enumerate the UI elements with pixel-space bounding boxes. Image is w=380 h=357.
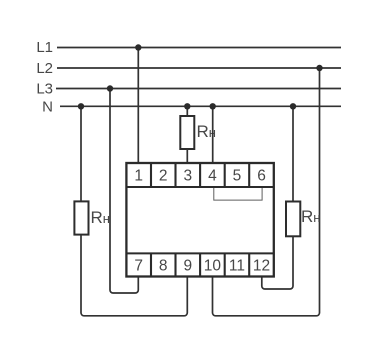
svg-text:7: 7 bbox=[134, 258, 143, 275]
junction dot on N at left resistor bbox=[78, 103, 84, 109]
device bottom terminal strip line bbox=[126, 252, 273, 254]
svg-text:1: 1 bbox=[134, 168, 143, 185]
wire N to terminal 4 bbox=[212, 106, 214, 163]
wire N to left resistor bbox=[80, 106, 82, 202]
internal link terminal 4 to terminal 6 bbox=[214, 188, 262, 200]
junction dot on L2 bbox=[316, 65, 322, 71]
svg-text:5: 5 bbox=[233, 168, 242, 185]
wire L1 to terminal 1 bbox=[137, 48, 139, 164]
resistor RH left bbox=[74, 201, 88, 234]
terminal dividers top bbox=[151, 163, 249, 187]
device top terminal strip line bbox=[126, 186, 273, 188]
svg-text:9: 9 bbox=[183, 258, 192, 275]
wire right resistor to terminal 12 bbox=[262, 236, 293, 289]
resistor RH right bbox=[286, 202, 300, 237]
junction dot on L1 bbox=[135, 44, 141, 50]
svg-text:10: 10 bbox=[204, 258, 222, 275]
svg-text:L2: L2 bbox=[36, 60, 53, 77]
terminal numbers 1-6 bbox=[134, 168, 265, 185]
terminal numbers 7-12 bbox=[134, 258, 270, 275]
wire L3 to terminal 7 bbox=[110, 89, 138, 294]
svg-text:8: 8 bbox=[159, 258, 168, 275]
wire L2 down right side to terminal 10 bbox=[213, 68, 320, 316]
svg-text:3: 3 bbox=[183, 168, 192, 185]
svg-text:6: 6 bbox=[257, 168, 266, 185]
svg-text:4: 4 bbox=[208, 168, 217, 185]
junction dot on N at terminal 4 bbox=[210, 103, 216, 109]
junction dot on N at top resistor bbox=[184, 103, 190, 109]
wire left resistor to terminal 9 bbox=[81, 235, 187, 316]
svg-text:11: 11 bbox=[229, 258, 245, 275]
svg-text:L1: L1 bbox=[36, 39, 53, 56]
svg-text:Rн: Rн bbox=[301, 207, 320, 226]
wire L1 bus bbox=[57, 47, 341, 49]
svg-text:Rн: Rн bbox=[91, 208, 110, 227]
svg-text:12: 12 bbox=[253, 258, 270, 275]
wire N to top resistor bbox=[186, 106, 188, 116]
wire L3 bus bbox=[56, 88, 341, 90]
resistor RH top bbox=[180, 116, 194, 149]
svg-text:L3: L3 bbox=[36, 81, 53, 98]
junction dot on L3 bbox=[107, 85, 113, 91]
device U1 body bbox=[126, 163, 273, 277]
wire top resistor to terminal 3 bbox=[186, 149, 188, 163]
junction dot on N at right resistor bbox=[290, 103, 296, 109]
wire L2 bus bbox=[57, 67, 341, 69]
svg-text:N: N bbox=[42, 99, 53, 116]
wire N to right resistor bbox=[292, 106, 294, 202]
wire N bus bbox=[60, 105, 341, 107]
terminal dividers bottom bbox=[151, 253, 249, 276]
svg-text:2: 2 bbox=[159, 168, 168, 185]
